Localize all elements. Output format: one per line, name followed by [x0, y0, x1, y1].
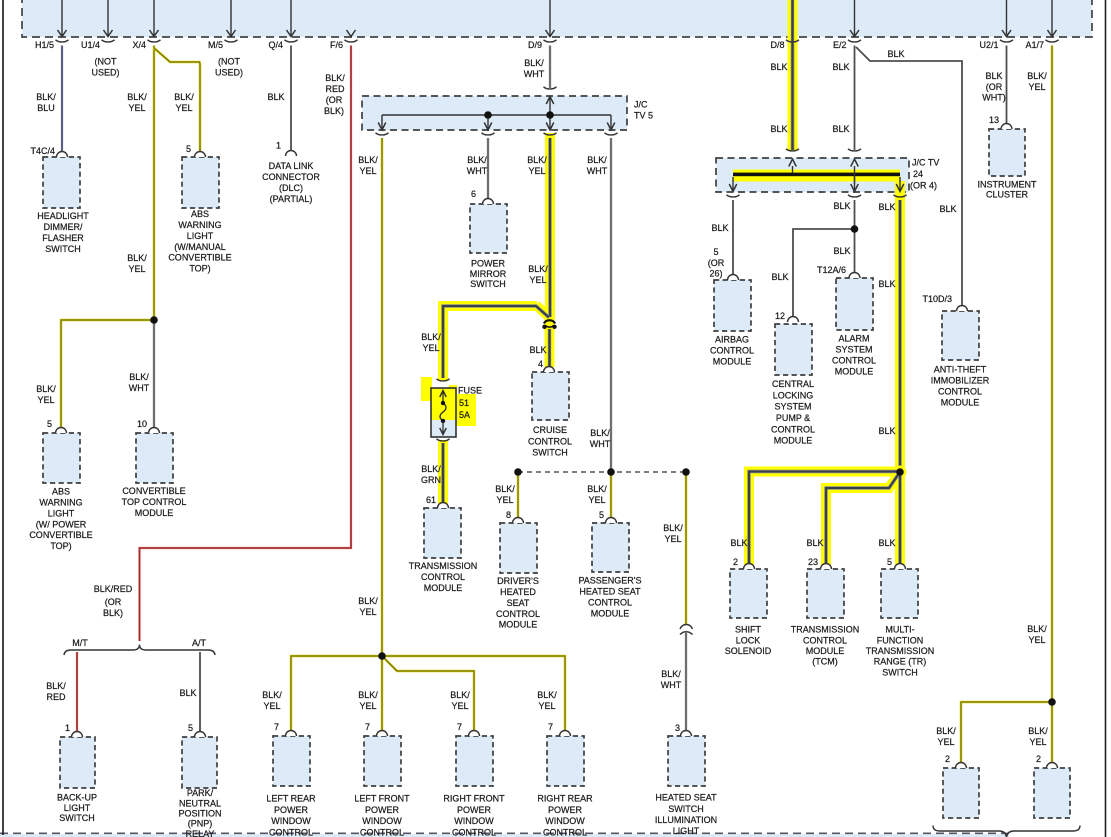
svg-text:5: 5 — [713, 247, 718, 257]
svg-text:WINDOW: WINDOW — [362, 816, 402, 826]
svg-text:BLK: BLK — [711, 223, 728, 233]
svg-text:CONTROL: CONTROL — [938, 386, 982, 396]
svg-text:(NOT: (NOT — [218, 57, 240, 67]
svg-text:5: 5 — [887, 557, 892, 567]
svg-text:ABS: ABS — [52, 487, 70, 497]
svg-text:D/9: D/9 — [528, 40, 542, 50]
svg-text:CONTROL: CONTROL — [543, 828, 587, 837]
svg-text:(TCM): (TCM) — [812, 657, 838, 667]
svg-text:RIGHT REAR: RIGHT REAR — [537, 794, 593, 804]
svg-text:BLK/: BLK/ — [358, 596, 378, 606]
svg-text:FUSE: FUSE — [458, 386, 482, 396]
svg-text:BLK: BLK — [833, 246, 850, 256]
svg-text:BLK: BLK — [806, 538, 823, 548]
svg-text:CONVERTIBLE: CONVERTIBLE — [168, 253, 231, 263]
svg-text:RED: RED — [325, 84, 345, 94]
svg-text:BLK: BLK — [939, 204, 956, 214]
svg-text:BLK/: BLK/ — [663, 523, 683, 533]
svg-text:BLK/: BLK/ — [46, 681, 66, 691]
svg-text:CONTROL: CONTROL — [771, 424, 815, 434]
svg-text:WHT: WHT — [524, 69, 545, 79]
svg-text:(W/MANUAL: (W/MANUAL — [174, 242, 226, 252]
svg-text:HEATED SEAT: HEATED SEAT — [579, 587, 641, 597]
svg-text:BLK/: BLK/ — [129, 372, 149, 382]
svg-text:YEL: YEL — [263, 701, 280, 711]
svg-text:MODULE: MODULE — [806, 646, 845, 656]
svg-text:7: 7 — [457, 722, 462, 732]
svg-text:(NOT: (NOT — [95, 57, 117, 67]
svg-text:BLK: BLK — [878, 426, 895, 436]
svg-text:YEL: YEL — [664, 534, 681, 544]
svg-text:YEL: YEL — [1028, 635, 1045, 645]
svg-text:J/C: J/C — [634, 100, 648, 110]
svg-text:POWER: POWER — [548, 805, 583, 815]
svg-text:RELAY: RELAY — [186, 829, 215, 837]
svg-text:1: 1 — [276, 141, 281, 151]
svg-text:CENTRAL: CENTRAL — [772, 379, 814, 389]
svg-text:PARK/: PARK/ — [187, 788, 214, 798]
svg-text:MODULE: MODULE — [499, 620, 538, 630]
svg-text:CONTROL: CONTROL — [710, 346, 754, 356]
svg-text:YEL: YEL — [175, 103, 192, 113]
svg-text:POWER: POWER — [471, 259, 506, 269]
svg-text:H1/5: H1/5 — [35, 40, 54, 50]
svg-text:2: 2 — [1036, 754, 1041, 764]
svg-text:13: 13 — [989, 115, 999, 125]
svg-text:YEL: YEL — [451, 701, 468, 711]
svg-text:X/4: X/4 — [132, 40, 146, 50]
svg-text:WINDOW: WINDOW — [454, 816, 494, 826]
svg-text:D/8: D/8 — [770, 40, 784, 50]
svg-text:CONTROL: CONTROL — [269, 828, 313, 837]
svg-text:E/2: E/2 — [833, 40, 847, 50]
svg-text:WHT: WHT — [467, 166, 488, 176]
svg-text:5A: 5A — [459, 410, 470, 420]
svg-text:T12A/6: T12A/6 — [817, 265, 846, 275]
svg-text:BLK/: BLK/ — [590, 428, 610, 438]
svg-text:BLK/: BLK/ — [421, 464, 441, 474]
svg-text:2: 2 — [945, 754, 950, 764]
svg-text:BLK/: BLK/ — [127, 92, 147, 102]
svg-text:YEL: YEL — [422, 343, 439, 353]
svg-text:10: 10 — [137, 419, 147, 429]
svg-text:LIGHT: LIGHT — [64, 803, 91, 813]
svg-text:ALARM: ALARM — [838, 334, 869, 344]
svg-text:HEATED SEAT: HEATED SEAT — [655, 793, 717, 803]
svg-text:MODULE: MODULE — [941, 397, 980, 407]
svg-text:BLK/: BLK/ — [421, 332, 441, 342]
svg-text:WARNING: WARNING — [39, 498, 82, 508]
svg-text:T10D/3: T10D/3 — [922, 294, 952, 304]
svg-text:BLK: BLK — [832, 124, 849, 134]
svg-text:TRANSMISSION: TRANSMISSION — [791, 625, 860, 635]
svg-text:RED: RED — [46, 692, 66, 702]
svg-text:7: 7 — [365, 722, 370, 732]
svg-text:MIRROR: MIRROR — [470, 269, 507, 279]
svg-text:TRANSMISSION: TRANSMISSION — [866, 646, 935, 656]
svg-text:SYSTEM: SYSTEM — [774, 402, 811, 412]
svg-text:(OR 4): (OR 4) — [910, 181, 937, 191]
svg-text:5: 5 — [186, 144, 191, 154]
svg-text:YEL: YEL — [588, 495, 605, 505]
svg-text:WHT): WHT) — [982, 93, 1006, 103]
svg-text:A1/7: A1/7 — [1025, 40, 1044, 50]
svg-text:BLK: BLK — [770, 62, 787, 72]
svg-text:CONVERTIBLE: CONVERTIBLE — [29, 530, 92, 540]
svg-text:BLK/: BLK/ — [358, 690, 378, 700]
svg-text:YEL: YEL — [359, 166, 376, 176]
svg-text:YEL: YEL — [496, 495, 513, 505]
svg-text:TV 5: TV 5 — [634, 111, 653, 121]
svg-text:5: 5 — [188, 723, 193, 733]
svg-text:51: 51 — [459, 398, 469, 408]
svg-text:BLK/: BLK/ — [1027, 624, 1047, 634]
svg-text:M/5: M/5 — [208, 40, 223, 50]
svg-text:ANTI-THEFT: ANTI-THEFT — [934, 365, 987, 375]
svg-text:BLK): BLK) — [103, 608, 123, 618]
svg-text:POSITION: POSITION — [178, 809, 221, 819]
svg-text:YEL: YEL — [528, 166, 545, 176]
svg-text:26): 26) — [709, 269, 722, 279]
svg-text:POWER: POWER — [365, 805, 400, 815]
svg-text:BLK/: BLK/ — [262, 690, 282, 700]
svg-text:FUNCTION: FUNCTION — [877, 635, 924, 645]
svg-text:BLK/: BLK/ — [36, 92, 56, 102]
svg-text:SWITCH: SWITCH — [882, 667, 918, 677]
svg-text:FLASHER: FLASHER — [42, 233, 84, 243]
svg-text:WINDOW: WINDOW — [545, 816, 585, 826]
svg-text:LOCK: LOCK — [736, 635, 761, 645]
svg-text:ABS: ABS — [191, 209, 209, 219]
svg-text:BLK/: BLK/ — [325, 73, 345, 83]
svg-text:WHT: WHT — [129, 383, 150, 393]
svg-text:3: 3 — [675, 723, 680, 733]
svg-text:CONNECTOR: CONNECTOR — [262, 172, 320, 182]
svg-text:AIRBAG: AIRBAG — [715, 335, 749, 345]
svg-text:SHIFT: SHIFT — [735, 625, 762, 635]
svg-text:MODULE: MODULE — [774, 436, 813, 446]
svg-text:BACK-UP: BACK-UP — [57, 793, 97, 803]
svg-text:BLK/: BLK/ — [174, 92, 194, 102]
svg-text:CONTROL: CONTROL — [803, 635, 847, 645]
svg-text:LIGHT: LIGHT — [48, 508, 75, 518]
svg-text:BLK: BLK — [833, 201, 850, 211]
svg-text:YEL: YEL — [128, 103, 145, 113]
svg-text:YEL: YEL — [937, 737, 954, 747]
svg-text:BLK: BLK — [529, 345, 546, 355]
svg-text:SWITCH: SWITCH — [532, 448, 568, 458]
svg-text:POWER: POWER — [274, 805, 309, 815]
svg-text:YEL: YEL — [359, 701, 376, 711]
svg-text:(W/ POWER: (W/ POWER — [36, 519, 87, 529]
svg-text:Q/4: Q/4 — [268, 40, 283, 50]
svg-text:LEFT FRONT: LEFT FRONT — [354, 794, 410, 804]
svg-text:SWITCH: SWITCH — [45, 244, 81, 254]
svg-text:CONTROL: CONTROL — [360, 828, 404, 837]
svg-text:U2/1: U2/1 — [979, 40, 998, 50]
svg-text:12: 12 — [775, 311, 785, 321]
svg-text:BLK/: BLK/ — [537, 690, 557, 700]
svg-text:BLK/: BLK/ — [936, 726, 956, 736]
svg-text:YEL: YEL — [1028, 82, 1045, 92]
svg-text:BLK: BLK — [887, 49, 904, 59]
svg-text:YEL: YEL — [359, 607, 376, 617]
svg-text:24: 24 — [913, 169, 923, 179]
svg-text:CRUISE: CRUISE — [533, 425, 567, 435]
svg-text:U1/4: U1/4 — [81, 40, 100, 50]
svg-text:BLK: BLK — [985, 71, 1002, 81]
svg-text:(OR: (OR — [105, 597, 122, 607]
svg-text:WHT: WHT — [661, 680, 682, 690]
svg-text:CONTROL: CONTROL — [588, 597, 632, 607]
svg-text:ILLUMINATION: ILLUMINATION — [655, 815, 717, 825]
svg-text:BLK/: BLK/ — [587, 155, 607, 165]
svg-text:A/T: A/T — [192, 638, 207, 648]
svg-text:BLK/: BLK/ — [524, 58, 544, 68]
svg-text:PUMP &: PUMP & — [776, 413, 810, 423]
svg-text:TOP): TOP) — [189, 264, 210, 274]
svg-text:LEFT REAR: LEFT REAR — [266, 794, 316, 804]
svg-text:BLK: BLK — [832, 62, 849, 72]
svg-text:(PNP): (PNP) — [188, 819, 213, 829]
svg-text:8: 8 — [506, 510, 511, 520]
svg-text:BLK/: BLK/ — [527, 155, 547, 165]
svg-text:J/C TV: J/C TV — [912, 158, 939, 168]
svg-text:BLK/: BLK/ — [358, 155, 378, 165]
svg-text:INSTRUMENT: INSTRUMENT — [978, 180, 1037, 190]
svg-text:7: 7 — [548, 722, 553, 732]
svg-text:SWITCH: SWITCH — [668, 804, 704, 814]
svg-text:BLK: BLK — [770, 124, 787, 134]
svg-text:YEL: YEL — [128, 264, 145, 274]
svg-text:BLK/: BLK/ — [1028, 726, 1048, 736]
svg-text:BLK: BLK — [771, 272, 788, 282]
svg-text:BLK: BLK — [878, 279, 895, 289]
svg-text:LOCKING: LOCKING — [773, 390, 814, 400]
svg-text:MODULE: MODULE — [835, 366, 874, 376]
svg-text:BLK/: BLK/ — [661, 669, 681, 679]
svg-text:BLK/: BLK/ — [36, 384, 56, 394]
svg-text:LIGHT: LIGHT — [673, 826, 700, 836]
svg-text:DRIVER'S: DRIVER'S — [497, 576, 539, 586]
svg-text:CONTROL: CONTROL — [452, 828, 496, 837]
svg-text:MODULE: MODULE — [713, 356, 752, 366]
svg-text:YEL: YEL — [37, 395, 54, 405]
svg-text:GRN: GRN — [421, 475, 441, 485]
svg-text:23: 23 — [808, 557, 818, 567]
svg-text:BLK/: BLK/ — [528, 264, 548, 274]
svg-text:MULTI-: MULTI- — [885, 625, 914, 635]
svg-text:CONTROL: CONTROL — [832, 355, 876, 365]
svg-text:SWITCH: SWITCH — [470, 279, 506, 289]
svg-text:CONTROL: CONTROL — [496, 609, 540, 619]
svg-text:SWITCH: SWITCH — [59, 813, 95, 823]
svg-text:RANGE (TR): RANGE (TR) — [874, 657, 927, 667]
svg-text:WHT: WHT — [587, 166, 608, 176]
svg-text:CONTROL: CONTROL — [528, 436, 572, 446]
svg-text:TOP): TOP) — [50, 541, 71, 551]
svg-text:USED): USED) — [215, 68, 243, 78]
svg-text:T4C/4: T4C/4 — [30, 146, 55, 156]
svg-text:MODULE: MODULE — [591, 608, 630, 618]
svg-text:5: 5 — [599, 510, 604, 520]
svg-text:LIGHT: LIGHT — [187, 231, 214, 241]
svg-text:CONVERTIBLE: CONVERTIBLE — [122, 486, 185, 496]
svg-text:2: 2 — [733, 557, 738, 567]
svg-text:BLK/RED: BLK/RED — [94, 584, 133, 594]
svg-text:(OR: (OR — [326, 95, 343, 105]
svg-text:CONTROL: CONTROL — [421, 572, 465, 582]
svg-text:NEUTRAL: NEUTRAL — [179, 798, 221, 808]
svg-text:(PARTIAL): (PARTIAL) — [270, 194, 313, 204]
svg-text:BLK/: BLK/ — [127, 253, 147, 263]
svg-text:POWER: POWER — [457, 805, 492, 815]
svg-text:61: 61 — [426, 495, 436, 505]
svg-text:M/T: M/T — [72, 638, 88, 648]
svg-text:USED): USED) — [91, 68, 119, 78]
svg-text:RIGHT FRONT: RIGHT FRONT — [443, 794, 505, 804]
svg-text:CLUSTER: CLUSTER — [986, 189, 1029, 199]
svg-text:SYSTEM: SYSTEM — [835, 345, 872, 355]
svg-text:YEL: YEL — [529, 275, 546, 285]
svg-text:TRANSMISSION: TRANSMISSION — [409, 561, 478, 571]
svg-text:BLK/: BLK/ — [587, 484, 607, 494]
svg-text:PASSENGER'S: PASSENGER'S — [578, 576, 641, 586]
svg-text:MODULE: MODULE — [424, 583, 463, 593]
svg-text:HEADLIGHT: HEADLIGHT — [37, 211, 89, 221]
svg-text:YEL: YEL — [538, 701, 555, 711]
svg-text:6: 6 — [471, 189, 476, 199]
svg-text:SEAT: SEAT — [507, 598, 530, 608]
svg-text:(OR: (OR — [708, 258, 725, 268]
svg-text:DATA LINK: DATA LINK — [269, 161, 314, 171]
svg-text:1: 1 — [65, 723, 70, 733]
svg-text:BLK: BLK — [730, 538, 747, 548]
svg-text:TOP CONTROL: TOP CONTROL — [122, 497, 187, 507]
svg-text:BLK: BLK — [267, 92, 284, 102]
svg-text:4: 4 — [538, 359, 543, 369]
svg-text:F/6: F/6 — [330, 40, 343, 50]
svg-text:SOLENOID: SOLENOID — [725, 646, 772, 656]
svg-text:BLU: BLU — [37, 103, 55, 113]
svg-text:(DLC): (DLC) — [279, 183, 303, 193]
svg-text:BLK/: BLK/ — [495, 484, 515, 494]
svg-text:DIMMER/: DIMMER/ — [44, 222, 83, 232]
svg-text:WHT: WHT — [590, 439, 611, 449]
svg-text:BLK/: BLK/ — [450, 690, 470, 700]
svg-text:MODULE: MODULE — [135, 508, 174, 518]
svg-text:BLK/: BLK/ — [1027, 71, 1047, 81]
svg-text:BLK: BLK — [878, 202, 895, 212]
svg-text:HEATED: HEATED — [500, 587, 536, 597]
svg-text:WINDOW: WINDOW — [271, 816, 311, 826]
svg-text:BLK): BLK) — [324, 106, 344, 116]
svg-text:BLK/: BLK/ — [467, 155, 487, 165]
svg-text:(OR: (OR — [986, 82, 1003, 92]
svg-text:BLK: BLK — [878, 538, 895, 548]
svg-text:7: 7 — [274, 722, 279, 732]
svg-text:YEL: YEL — [1029, 737, 1046, 747]
svg-text:IMMOBILIZER: IMMOBILIZER — [931, 376, 990, 386]
svg-text:WARNING: WARNING — [178, 220, 221, 230]
svg-text:5: 5 — [47, 419, 52, 429]
svg-text:BLK: BLK — [179, 688, 196, 698]
